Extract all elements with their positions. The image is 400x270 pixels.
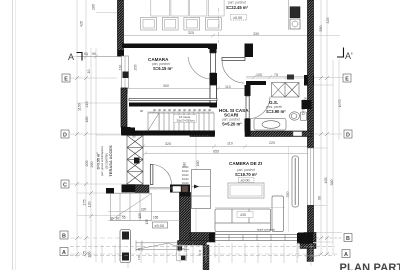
svg-text:D: D: [63, 132, 67, 138]
svg-text:S=22.45 m²: S=22.45 m²: [226, 5, 249, 10]
rotated dims near column: [137, 247, 141, 260]
svg-text:75: 75: [274, 73, 278, 77]
svg-text:A: A: [62, 250, 66, 256]
svg-text:E: E: [345, 76, 349, 82]
door leaf: vestibule: [222, 58, 245, 61]
tiny text stack right of door: [182, 166, 189, 185]
terasa X-strip: [127, 136, 143, 185]
wall: right exterior lower: [308, 206, 314, 233]
sofa: [215, 196, 284, 232]
door arc: gs: [248, 97, 271, 120]
wall cap above camara window: [118, 50, 125, 56]
svg-text:A: A: [344, 252, 348, 258]
svg-text:30: 30: [163, 108, 167, 112]
text: top room area: [226, 1, 249, 21]
wall: entrance south (hatched piece): [135, 185, 149, 193]
svg-text:tiparit comanda: tiparit comanda: [257, 228, 275, 232]
text: camera de zi labels: [229, 161, 262, 183]
text: camara: [148, 57, 173, 71]
level box terasa steps: [153, 222, 168, 228]
wall: gs south segment (y131-136): [245, 131, 311, 137]
SE corner pier: [297, 233, 316, 249]
svg-text:220: 220: [141, 208, 147, 212]
svg-text:30: 30: [158, 108, 162, 112]
svg-text:40x40: 40x40: [182, 178, 189, 181]
foundation strip below SW wall (hatched L): [178, 241, 210, 270]
svg-text:40x40: 40x40: [182, 166, 189, 169]
kitchen counter right: stove: [289, 0, 301, 30]
svg-text:20: 20: [304, 96, 308, 100]
wall: right exterior (east) upper: [308, 0, 314, 148]
svg-text:CAMERA DE ZI: CAMERA DE ZI: [229, 161, 262, 166]
svg-text:135: 135: [145, 219, 149, 225]
svg-text:90: 90: [140, 109, 144, 113]
wall: living south with window: [190, 233, 316, 243]
svg-text:TERASA ACCES: TERASA ACCES: [108, 145, 113, 177]
svg-text:S=6.15 m²: S=6.15 m²: [153, 66, 173, 71]
svg-text:40x40: 40x40: [182, 174, 189, 177]
svg-text:435: 435: [240, 213, 246, 217]
svg-text:30: 30: [168, 108, 172, 112]
bottom steps / ramp: [136, 241, 189, 253]
stairs: label 16 trepte: [174, 115, 197, 123]
wall: gs west (x245-250) upper: [245, 85, 251, 96]
svg-text:30: 30: [203, 108, 207, 112]
grid bubble E right: [343, 74, 351, 82]
svg-text:30: 30: [208, 108, 212, 112]
left dimension chain labels (rotated): [78, 4, 96, 258]
svg-text:(acoperita): (acoperita): [104, 153, 108, 168]
svg-text:E: E: [64, 76, 68, 82]
small arrow mark hall: [194, 185, 199, 189]
wall: left exterior lower (camara west, below window): [121, 88, 131, 136]
svg-text:30: 30: [193, 108, 197, 112]
svg-text:30: 30: [188, 108, 192, 112]
svg-text:30: 30: [173, 108, 177, 112]
wall cap below camara window: [121, 88, 128, 94]
grid bubble D left: [61, 130, 69, 138]
dim 435 sofa: [237, 212, 253, 218]
front steps left: [111, 194, 152, 221]
shaft box near shower: [287, 75, 294, 80]
svg-text:180: 180: [196, 161, 200, 167]
wall: stairs south / terasa north (y 128-135.5): [122, 128, 215, 136]
dims near entrance steps: [110, 208, 159, 225]
svg-text:175: 175: [83, 200, 87, 206]
svg-text:30: 30: [183, 108, 187, 112]
kitchen upper cabinets: [151, 0, 224, 16]
grid bubble A left: [60, 248, 68, 256]
wall: gs west lower: [245, 119, 251, 132]
tick marks on chains: [75, 76, 329, 256]
svg-text:±0.00: ±0.00: [155, 224, 164, 228]
axis dash line top room: [218, 8, 220, 43]
toilet wc: [290, 112, 307, 121]
text: terasa acces (rotated): [96, 145, 113, 177]
wall: vestibule block right of camara door: [245, 44, 254, 58]
wall: camara east (x210) with door opening: [210, 49, 218, 108]
svg-text:D: D: [346, 132, 350, 138]
svg-text:380: 380: [330, 180, 334, 186]
svg-text:110: 110: [227, 142, 233, 146]
section mark A' right: [337, 48, 353, 62]
dim line y77 (gs north): [246, 75, 305, 79]
dim extension vertical in living room: [288, 146, 290, 232]
extension lines left: [70, 57, 340, 255]
svg-text:90: 90: [92, 52, 96, 56]
dim line y88 camara: [125, 87, 249, 91]
grid bubble E left: [62, 74, 70, 82]
dim line y215 steps: [108, 212, 180, 221]
svg-text:±0.00: ±0.00: [233, 16, 242, 20]
section mark A left: [68, 52, 82, 62]
grid bubble A right: [342, 250, 350, 258]
svg-text:C: C: [63, 182, 67, 188]
svg-text:60: 60: [84, 52, 88, 56]
svg-text:30x17=259cm: 30x17=259cm: [177, 118, 196, 122]
wall junction: gs east: [302, 100, 312, 109]
dim line y56 top left: [77, 55, 122, 59]
svg-text:130: 130: [88, 252, 92, 258]
svg-text:425: 425: [80, 21, 84, 27]
svg-text:285: 285: [92, 4, 96, 10]
svg-text:425: 425: [326, 18, 330, 24]
porch column footing: [120, 230, 131, 263]
svg-text:655: 655: [213, 150, 219, 154]
terasa mid column block: [134, 158, 140, 164]
door arc: entrance: [152, 165, 172, 185]
svg-text:205: 205: [134, 65, 138, 71]
svg-text:S=19.70 m²: S=19.70 m²: [235, 172, 258, 177]
grid bubble C left: [61, 180, 69, 188]
svg-text:B: B: [346, 236, 350, 242]
text: hol si casa scari: [219, 108, 249, 127]
svg-text:PLAN PARTER: PLAN PARTER: [340, 262, 400, 270]
svg-text:465: 465: [324, 178, 328, 184]
svg-text:215: 215: [85, 102, 89, 108]
svg-text:30: 30: [198, 108, 202, 112]
svg-text:30: 30: [153, 108, 157, 112]
svg-text:325: 325: [165, 142, 171, 146]
wall: terasa south corner block: [122, 185, 136, 193]
foundation dashed lines: [70, 247, 335, 256]
construction grid thin lines: [77, 0, 339, 262]
svg-text:A': A': [345, 51, 353, 61]
svg-text:120: 120: [88, 202, 92, 208]
wall pier: top right of gs: [304, 75, 314, 86]
svg-text:30: 30: [178, 108, 182, 112]
grid bubble B right: [344, 234, 352, 242]
wall: camara north (top wall y44): [122, 44, 217, 50]
wall: entrance south right piece with cap: [170, 185, 190, 193]
svg-text:90: 90: [133, 135, 137, 139]
radiator by east window: [292, 156, 299, 207]
svg-text:B: B: [62, 233, 66, 239]
dim line y153 overall 655: [143, 152, 313, 156]
page edge line: [13, 0, 16, 270]
svg-text:30: 30: [110, 217, 114, 221]
window: camara west wall: [122, 56, 129, 88]
svg-text:55: 55: [122, 216, 126, 220]
sofa back top line: [215, 207, 285, 209]
svg-text:350: 350: [286, 192, 290, 198]
svg-text:A: A: [68, 52, 74, 62]
wall: hol/gs south (y131-136) left segment: [190, 131, 215, 137]
washbasin counter: [254, 119, 286, 131]
stairs: first flight diagonal: [148, 113, 159, 131]
shower cabin with X: [272, 83, 300, 98]
svg-text:30: 30: [116, 217, 120, 221]
svg-text:80: 80: [207, 248, 211, 252]
door leaf: entrance: [150, 165, 153, 185]
text: G.S. room label: [266, 100, 306, 115]
svg-text:120: 120: [138, 213, 142, 219]
svg-text:300: 300: [163, 84, 169, 88]
dim line y146: [141, 145, 313, 149]
svg-text:260: 260: [90, 162, 94, 168]
svg-text:1075: 1075: [338, 100, 342, 108]
top dimension line: [120, 34, 313, 38]
wall block: porch SW post: [106, 188, 114, 194]
wall: gs north segment: [246, 81, 266, 85]
extension lines right: [313, 36, 344, 243]
dashed line to B bubble right: [316, 237, 343, 239]
grid bubble D right: [344, 130, 352, 138]
svg-text:part. parchet: part. parchet: [228, 1, 246, 5]
window end extension lines bottom: [96, 13, 298, 259]
svg-text:S=3.55 m²: S=3.55 m²: [96, 152, 100, 170]
cabinet living west: [192, 170, 211, 209]
svg-text:40x40: 40x40: [182, 170, 189, 173]
svg-text:105: 105: [256, 73, 262, 77]
entrance threshold lines: [150, 187, 173, 189]
svg-text:205: 205: [85, 161, 89, 167]
wall: left exterior upper (top room / camara west): [118, 0, 124, 56]
kitchen lower squares: [141, 18, 222, 31]
stairs: treads: [149, 113, 214, 131]
svg-text:180: 180: [85, 117, 89, 123]
wall: stairs north (y 98.5-106.5): [129, 99, 217, 107]
svg-text:220: 220: [269, 141, 275, 145]
svg-text:10: 10: [87, 70, 91, 74]
foundation pier detail bottom left: [177, 245, 202, 261]
coffee table: [228, 183, 264, 198]
wall: living west (x180-190): [180, 193, 191, 242]
stairs: tread numbers 30: [140, 108, 212, 113]
svg-text:90: 90: [318, 196, 322, 200]
axis cross bottom right: [305, 255, 317, 257]
svg-text:S=3.90 m²: S=3.90 m²: [266, 109, 286, 114]
svg-text:±0.00: ±0.00: [241, 179, 250, 183]
svg-text:40x40: 40x40: [182, 182, 189, 185]
door leaf: gs: [246, 96, 249, 119]
stairs: tread dim row: [147, 111, 214, 114]
svg-text:550: 550: [319, 26, 323, 32]
foundation vertical ticks: [102, 243, 311, 268]
svg-text:330: 330: [253, 32, 259, 36]
svg-text:325: 325: [188, 31, 194, 35]
extension line terasa north: [96, 134, 122, 136]
grid bubble B left: [60, 231, 68, 239]
right dimension chain labels (rotated): [119, 18, 343, 201]
foundation strip below SE corner: [307, 244, 314, 262]
svg-text:165: 165: [153, 216, 159, 220]
svg-text:110: 110: [225, 85, 231, 89]
window: living east wall: [308, 148, 314, 206]
svg-text:S=5.20 m²: S=5.20 m²: [222, 122, 242, 127]
door arc: camara: [188, 57, 210, 79]
svg-text:1150: 1150: [78, 103, 82, 111]
svg-text:part. gresie antiderapanta: part. gresie antiderapanta: [100, 146, 104, 176]
door arc: vestibule: [222, 61, 245, 84]
